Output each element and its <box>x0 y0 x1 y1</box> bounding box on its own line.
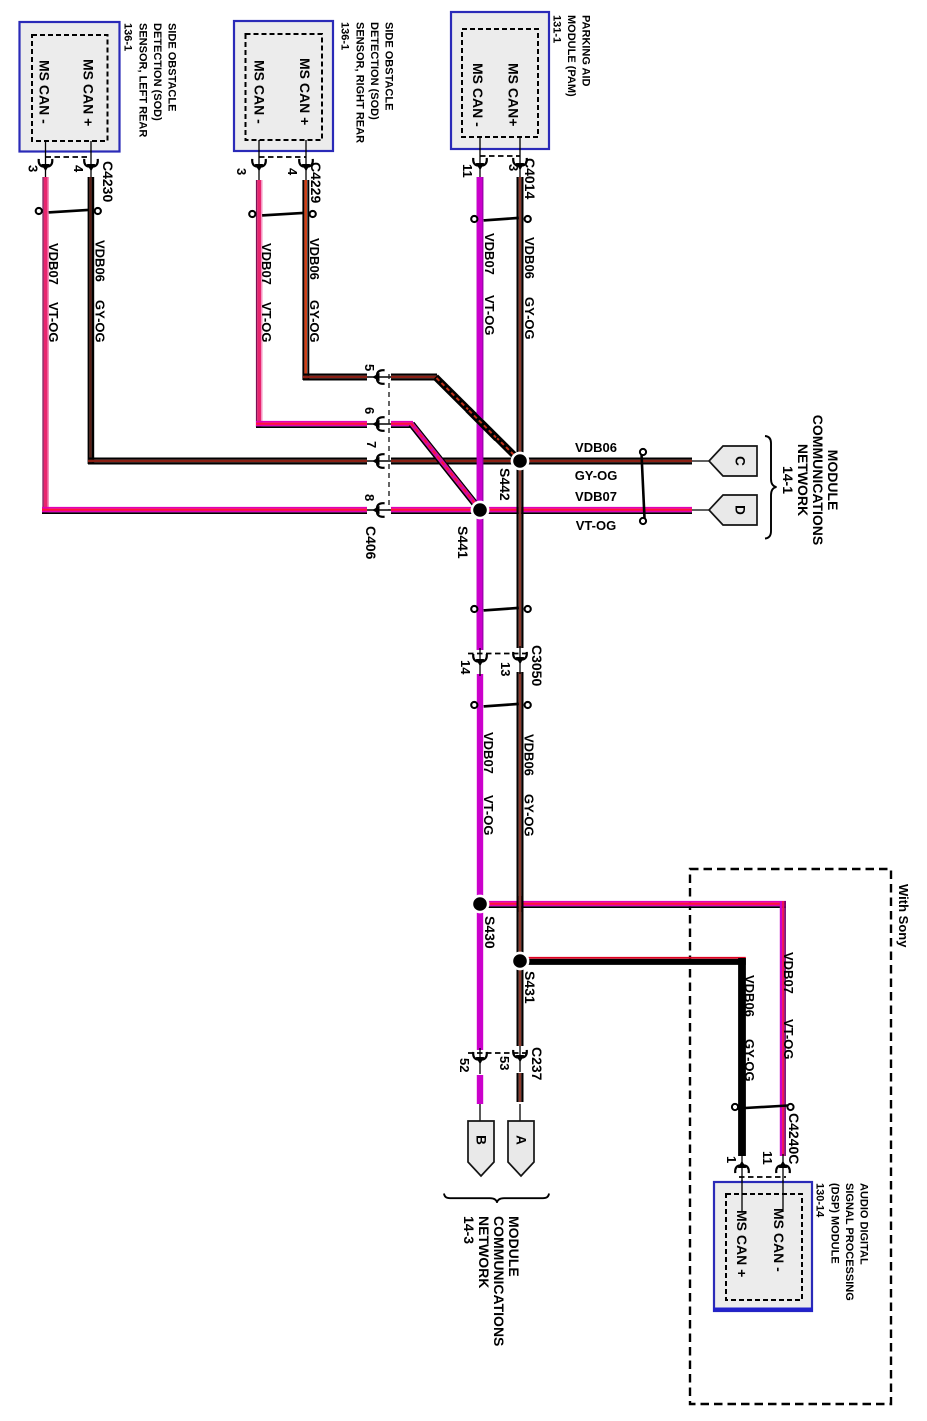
connector B arrow <box>468 1121 494 1176</box>
svg-text:GY-OG: GY-OG <box>522 794 537 837</box>
wire VDB06 GY-OG Sony vertical black <box>738 958 746 1156</box>
svg-text:S442: S442 <box>497 468 513 501</box>
svg-text:D: D <box>733 505 748 515</box>
splice S430 <box>471 895 490 914</box>
wire VDB06 GY-OG left sensor vertical <box>89 177 93 464</box>
wire VDB07 VT-OG right sensor vertical <box>257 180 262 427</box>
splice S441 <box>471 501 490 520</box>
connector C3050 lead pin 14 <box>479 648 481 676</box>
DSP pin lead MS CAN + <box>741 1180 743 1212</box>
svg-text:3: 3 <box>234 168 249 175</box>
svg-text:C: C <box>733 456 748 466</box>
connector C3050 pin 14 symbol <box>473 655 487 666</box>
audio DSP inner dashed connector box <box>726 1194 802 1300</box>
svg-text:MS CAN +: MS CAN + <box>297 58 313 125</box>
svg-text:S431: S431 <box>522 971 538 1004</box>
svg-text:3: 3 <box>26 165 41 172</box>
audio DSP module bottom thick border <box>713 1308 813 1312</box>
twisted pair symbol PAM pair top <box>471 216 531 222</box>
svg-text:VDB07: VDB07 <box>482 233 497 275</box>
svg-text:VDB07: VDB07 <box>259 243 274 285</box>
twisted pair symbol left sensor <box>36 208 101 214</box>
svg-text:S430: S430 <box>482 916 498 949</box>
svg-text:A: A <box>514 1135 529 1145</box>
PAM pin lead MS CAN + <box>519 137 521 178</box>
wire VDB07 VT-OG Sony vertical <box>781 901 785 1156</box>
connector C4229 pin 3 symbol <box>252 160 266 171</box>
svg-text:C3050: C3050 <box>529 645 545 686</box>
SOD left rear sensor inner dashed connector box <box>32 35 108 141</box>
connector C4240C dashed line <box>739 1176 786 1178</box>
connector C4014 pin 3 symbol <box>513 159 527 170</box>
SOD right rear sensor inner dashed connector box <box>246 34 323 140</box>
wire VDB06 GY-OG PAM vertical below C3050 <box>518 672 523 1046</box>
svg-text:S441: S441 <box>455 526 471 559</box>
wire VDB07 VT-OG PAM vertical <box>477 177 483 650</box>
connector C237 lead pin 52 <box>479 1048 481 1074</box>
wire VDB06 GY-OG right sensor horizontal run to pin 5 <box>303 375 437 380</box>
svg-text:VT-OG: VT-OG <box>259 302 274 342</box>
svg-text:VDB06: VDB06 <box>575 440 617 455</box>
svg-text:C4230: C4230 <box>100 161 116 202</box>
wire VDB07 VT-OG segment below C237 <box>477 1075 483 1104</box>
svg-text:B: B <box>474 1135 489 1145</box>
wire VDB06 GY-OG horizontal run left sensor to connector C <box>88 459 692 464</box>
svg-text:GY-OG: GY-OG <box>522 297 537 340</box>
lead to connector C <box>692 460 709 462</box>
twisted pair symbol mid lower <box>471 702 531 708</box>
svg-text:GY-OG: GY-OG <box>307 300 322 343</box>
connector A arrow <box>508 1121 534 1176</box>
connector C406 pin 5 symbol <box>372 370 383 384</box>
svg-text:8: 8 <box>362 494 377 501</box>
svg-text:4: 4 <box>285 168 300 176</box>
SOD right rear sensor pin lead MS CAN + <box>305 140 307 181</box>
connector C406 pin 7 symbol <box>372 454 383 468</box>
svg-text:MS CAN +: MS CAN + <box>734 1210 750 1277</box>
connector C406 dashed line <box>388 374 390 510</box>
connector C4229 dashed line <box>259 156 306 158</box>
svg-text:VT-OG: VT-OG <box>482 295 497 335</box>
connector C4240C pin 11 symbol <box>776 1161 790 1172</box>
svg-text:VT-OG: VT-OG <box>481 795 496 835</box>
lead to connector B <box>479 1104 481 1122</box>
svg-text:VDB07: VDB07 <box>575 489 617 504</box>
connector C406 pin 6 symbol <box>372 417 383 431</box>
svg-text:GY-OG: GY-OG <box>742 1039 757 1082</box>
connector C arrow <box>709 446 757 476</box>
svg-text:11: 11 <box>460 164 475 178</box>
wire VDB07 VT-OG horizontal run left sensor to connector D <box>42 508 692 513</box>
svg-text:With Sony: With Sony <box>896 884 911 948</box>
connector C4014 dashed line <box>480 155 520 157</box>
svg-text:14: 14 <box>458 660 473 675</box>
SOD right rear sensor box outer <box>234 21 333 151</box>
wire VDB06 diagonal overpass across PAM VDB07 vertical <box>468 410 497 439</box>
connector C4230 dashed line <box>46 156 92 158</box>
dashed box With Sony <box>690 869 891 1404</box>
svg-text:MS CAN -: MS CAN - <box>37 60 53 124</box>
svg-text:VDB07: VDB07 <box>481 732 496 774</box>
svg-text:VDB06: VDB06 <box>307 238 322 280</box>
connector C3050 pin 13 symbol <box>513 653 527 664</box>
twisted pair symbol mid upper <box>471 606 531 612</box>
connector C237 pin 53 symbol <box>513 1051 527 1062</box>
wire VDB06 diagonal from pin 5 to splice S442 <box>436 377 521 461</box>
PAM pin lead MS CAN - <box>479 137 481 178</box>
svg-text:5: 5 <box>362 364 377 371</box>
svg-text:VT-OG: VT-OG <box>46 302 61 342</box>
DSP pin lead MS CAN - <box>782 1180 784 1212</box>
connector C4229 pin 4 symbol <box>299 160 313 171</box>
wire VDB06 GY-OG PAM vertical overpass at S430 wire crossing <box>518 896 523 912</box>
svg-text:MS CAN+: MS CAN+ <box>506 63 522 126</box>
svg-text:6: 6 <box>362 407 377 414</box>
connector C237 pin 52 symbol <box>473 1053 487 1064</box>
svg-text:MS CAN +: MS CAN + <box>81 59 97 126</box>
wire VDB07 VT-OG right sensor horizontal run to pin 6 <box>256 422 413 427</box>
svg-text:C4240C: C4240C <box>786 1113 802 1164</box>
connector C4230 pin 4 symbol <box>84 160 98 171</box>
splice S442 <box>511 452 530 471</box>
connector C4014 pin 11 symbol <box>473 159 487 170</box>
connector C4230 pin 3 symbol <box>39 160 53 171</box>
svg-text:53: 53 <box>497 1056 512 1070</box>
wire VDB06 GY-OG right sensor vertical <box>303 180 308 380</box>
brace for module communications network 14-3 <box>444 1194 549 1203</box>
connector C4240C lead pin 11 <box>782 1154 784 1196</box>
svg-text:GY-OG: GY-OG <box>93 300 108 343</box>
connector C3050 dashed line <box>468 653 527 655</box>
twisted pair symbol right sensor <box>249 211 316 217</box>
svg-text:1: 1 <box>724 1156 739 1163</box>
wire VDB07 VT-OG left sensor vertical <box>43 177 48 513</box>
connector C4240C lead pin 1 <box>741 1154 743 1196</box>
svg-text:VDB06: VDB06 <box>93 240 108 282</box>
twisted pair symbol Sony <box>732 1104 794 1110</box>
svg-text:VT-OG: VT-OG <box>781 1019 796 1059</box>
wire VDB06 GY-OG segment below C237 <box>518 1073 523 1102</box>
audio DSP module box outer <box>714 1182 812 1311</box>
svg-text:C4229: C4229 <box>308 162 324 203</box>
SOD left rear sensor box outer <box>20 22 120 152</box>
svg-text:GY-OG: GY-OG <box>575 468 618 483</box>
svg-text:C4014: C4014 <box>522 158 538 199</box>
connector C406 pin 8 symbol <box>372 503 383 517</box>
svg-text:VDB06: VDB06 <box>522 237 537 279</box>
connector D arrow <box>709 495 757 525</box>
svg-text:MS CAN -: MS CAN - <box>470 63 486 127</box>
svg-text:MS CAN -: MS CAN - <box>771 1208 787 1272</box>
wire VDB06 GY-OG PAM vertical <box>518 177 523 648</box>
svg-text:C406: C406 <box>363 526 379 560</box>
connector C237 dashed line <box>468 1052 527 1054</box>
brace for module communications network 14-1 <box>765 436 777 539</box>
connector C4240C pin 1 symbol <box>735 1161 749 1172</box>
svg-text:4: 4 <box>71 165 86 173</box>
svg-text:3: 3 <box>506 164 521 171</box>
svg-text:VDB06: VDB06 <box>522 734 537 776</box>
connector C237 lead pin 53 <box>519 1046 521 1072</box>
wire VDB07 VT-OG PAM vertical below C3050 <box>477 674 483 1050</box>
svg-text:MS CAN -: MS CAN - <box>252 60 268 124</box>
lead to connector D <box>692 509 709 511</box>
svg-text:VDB06: VDB06 <box>742 975 757 1017</box>
wire VDB07 diagonal overpass across VDB06 horizontal run <box>411 423 480 510</box>
svg-text:52: 52 <box>457 1058 472 1072</box>
wire VDB06 GY-OG horizontal S431 to Sony <box>518 958 746 962</box>
SOD right rear sensor pin lead MS CAN - <box>258 140 260 181</box>
splice S431 <box>511 952 530 971</box>
svg-text:C237: C237 <box>529 1047 545 1081</box>
lead to connector A <box>519 1104 521 1122</box>
connector C3050 lead pin 13 <box>519 646 521 674</box>
SOD left rear sensor pin lead MS CAN + <box>90 141 92 178</box>
wire VDB07 diagonal from pin 6 to splice S441 <box>411 423 480 510</box>
svg-text:VDB07: VDB07 <box>781 952 796 994</box>
wire VDB07 VT-OG horizontal S430 to Sony <box>478 902 786 907</box>
PAM inner dashed connector box <box>462 29 538 137</box>
svg-text:7: 7 <box>364 441 379 448</box>
svg-text:VT-OG: VT-OG <box>576 518 616 533</box>
svg-text:VDB07: VDB07 <box>46 243 61 285</box>
SOD left rear sensor pin lead MS CAN - <box>45 141 47 178</box>
twisted pair symbol before connectors C and D <box>640 449 646 524</box>
svg-text:13: 13 <box>498 662 513 676</box>
parking aid module PAM box outer <box>451 12 549 149</box>
svg-text:11: 11 <box>760 1151 775 1165</box>
